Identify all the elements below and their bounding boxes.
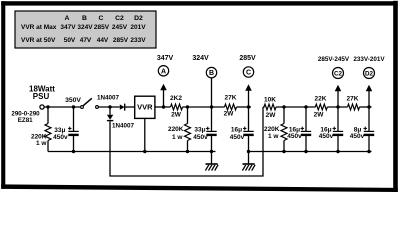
- svg-text:C: C: [246, 70, 251, 77]
- node junction A tap: [162, 105, 165, 108]
- node C2 arrow: [335, 85, 342, 107]
- wire 27K to D2: [360, 106, 372, 108]
- node junction 220K right: [282, 105, 285, 108]
- border frame: [1, 1, 397, 5]
- svg-text:47V: 47V: [80, 37, 92, 44]
- svg-text:285V: 285V: [94, 24, 110, 31]
- svg-text:245V: 245V: [112, 24, 128, 31]
- wire VVR out: [155, 106, 170, 108]
- svg-text:C: C: [99, 15, 104, 22]
- resistor 2K2 2W: [170, 95, 182, 118]
- node junction C tap: [247, 105, 250, 108]
- svg-text:450v: 450v: [350, 133, 365, 140]
- wire switch to diode: [98, 106, 119, 108]
- svg-text:2K2: 2K2: [170, 95, 182, 102]
- table row VVR at Max: [21, 24, 146, 31]
- svg-text:B: B: [82, 15, 87, 22]
- node junction diode tap: [108, 105, 111, 108]
- wire 10K to 22K: [276, 106, 316, 108]
- svg-text:347V: 347V: [157, 55, 174, 62]
- svg-text:285V: 285V: [113, 37, 129, 44]
- svg-text:1N4007: 1N4007: [97, 94, 120, 101]
- resistor 220K 1w left: [31, 107, 51, 152]
- svg-text:2W: 2W: [314, 112, 325, 119]
- node C arrow: [245, 84, 252, 107]
- node B circle: [192, 55, 216, 107]
- switch 350V: [65, 97, 98, 109]
- svg-text:2W: 2W: [224, 111, 235, 118]
- node junction C2 tap: [336, 105, 339, 108]
- capacitor 16u 450v node C2: [319, 107, 343, 152]
- resistor 220K 1w right: [264, 107, 287, 152]
- diode 1N4007 shunt vertical: [107, 107, 135, 130]
- svg-text:33μ: 33μ: [194, 127, 205, 134]
- svg-text:C2: C2: [334, 70, 343, 77]
- ground symbol left: [205, 152, 218, 171]
- svg-text:201V: 201V: [130, 24, 146, 31]
- resistor 27K 2W left: [224, 95, 237, 118]
- node D2 circle: [353, 56, 385, 79]
- svg-text:VVR at Max: VVR at Max: [21, 24, 57, 31]
- input terminal circle: [40, 105, 44, 109]
- node junction gnd VVR: [143, 150, 146, 153]
- node junction input: [46, 105, 49, 108]
- svg-text:1 w: 1 w: [172, 134, 183, 141]
- resistor 10K 2W: [264, 97, 276, 120]
- node junction gnd cap mid: [210, 150, 213, 153]
- node junction gnd 220K mid: [186, 150, 189, 153]
- svg-text:347V: 347V: [60, 24, 76, 31]
- svg-text:233V: 233V: [130, 37, 146, 44]
- node junction 220K mid: [186, 105, 189, 108]
- table header row: [65, 15, 144, 22]
- table box: [15, 11, 156, 48]
- resistor 22K 2W: [314, 96, 328, 119]
- svg-text:27K: 27K: [225, 95, 237, 102]
- resistor 27K right: [347, 96, 360, 110]
- node junction gnd cap C: [247, 150, 250, 153]
- diode 1N4007 series: [97, 94, 135, 110]
- svg-text:220K: 220K: [264, 126, 280, 133]
- svg-text:1N4007: 1N4007: [112, 123, 135, 130]
- svg-text:2W: 2W: [266, 112, 277, 119]
- node junction gnd cap33u: [72, 150, 75, 153]
- label 18Watt PSU: [29, 85, 55, 101]
- wire input to switch: [44, 106, 80, 108]
- label 290-0-290 EZ81: [11, 111, 40, 124]
- node junction gnd 16u right1: [304, 150, 307, 153]
- capacitor 16u 450v node C: [230, 107, 254, 152]
- capacitor 16u 450v right1: [287, 107, 311, 152]
- svg-text:220K: 220K: [168, 126, 184, 133]
- svg-text:450v: 450v: [319, 133, 334, 140]
- svg-text:233V-201V: 233V-201V: [353, 56, 385, 63]
- svg-text:PSU: PSU: [33, 92, 50, 101]
- node junction 16u right1: [304, 105, 307, 108]
- svg-text:350V: 350V: [65, 97, 81, 104]
- wire ground bus right: [249, 151, 372, 153]
- wire ground bus left: [48, 151, 216, 153]
- svg-text:450v: 450v: [53, 134, 68, 141]
- capacitor 8u 450v node D2: [350, 107, 374, 152]
- svg-text:16μ: 16μ: [231, 127, 242, 134]
- svg-text:27K: 27K: [347, 96, 359, 103]
- node D2 arrow: [366, 85, 373, 107]
- node C circle: [239, 55, 256, 77]
- svg-text:EZ81: EZ81: [18, 117, 33, 124]
- wire 2K2 to 27K: [183, 106, 225, 108]
- svg-text:285V: 285V: [239, 55, 256, 62]
- node A circle: [157, 55, 174, 76]
- node junction B tap: [210, 105, 213, 108]
- capacitor 33u 450v mid: [193, 107, 216, 152]
- svg-text:VVR: VVR: [137, 102, 153, 111]
- svg-text:324V: 324V: [192, 55, 209, 62]
- svg-text:D2: D2: [134, 15, 143, 22]
- svg-text:324V: 324V: [77, 24, 93, 31]
- wire raw feed riser: [110, 107, 263, 176]
- node junction gnd 16u C2: [336, 150, 339, 153]
- node A arrow: [160, 84, 167, 107]
- resistor 220K 1w mid: [168, 107, 191, 152]
- node junction gnd 220K right: [282, 150, 285, 153]
- svg-text:A: A: [65, 15, 70, 22]
- ground symbol right: [242, 152, 255, 171]
- VVR regulator box U1: [135, 96, 155, 151]
- wire 22K to 27K: [327, 106, 347, 108]
- svg-text:10K: 10K: [264, 97, 276, 104]
- capacitor 33u 450v left: [53, 107, 79, 152]
- svg-text:285V-245V: 285V-245V: [318, 56, 350, 63]
- svg-text:450v: 450v: [193, 134, 208, 141]
- table row VVR at 50V: [21, 37, 146, 44]
- svg-text:1 w: 1 w: [36, 140, 47, 147]
- node C2 circle: [318, 56, 350, 79]
- svg-text:1 w: 1 w: [268, 133, 279, 140]
- svg-text:B: B: [209, 70, 214, 77]
- svg-text:22K: 22K: [315, 96, 327, 103]
- wire 27K to C: [237, 106, 252, 108]
- svg-text:450v: 450v: [230, 134, 245, 141]
- svg-text:50V: 50V: [64, 37, 76, 44]
- svg-text:VVR at 50V: VVR at 50V: [21, 37, 56, 44]
- svg-text:A: A: [161, 68, 166, 75]
- svg-text:450v: 450v: [287, 133, 302, 140]
- node junction cap33u: [72, 105, 75, 108]
- node junction gnd 8u D2: [367, 150, 370, 153]
- node junction D2 tap: [367, 105, 370, 108]
- svg-text:D2: D2: [365, 70, 374, 77]
- svg-text:44V: 44V: [97, 37, 109, 44]
- wire right bus start: [263, 106, 265, 108]
- svg-text:C2: C2: [115, 15, 124, 22]
- svg-text:2W: 2W: [171, 111, 182, 118]
